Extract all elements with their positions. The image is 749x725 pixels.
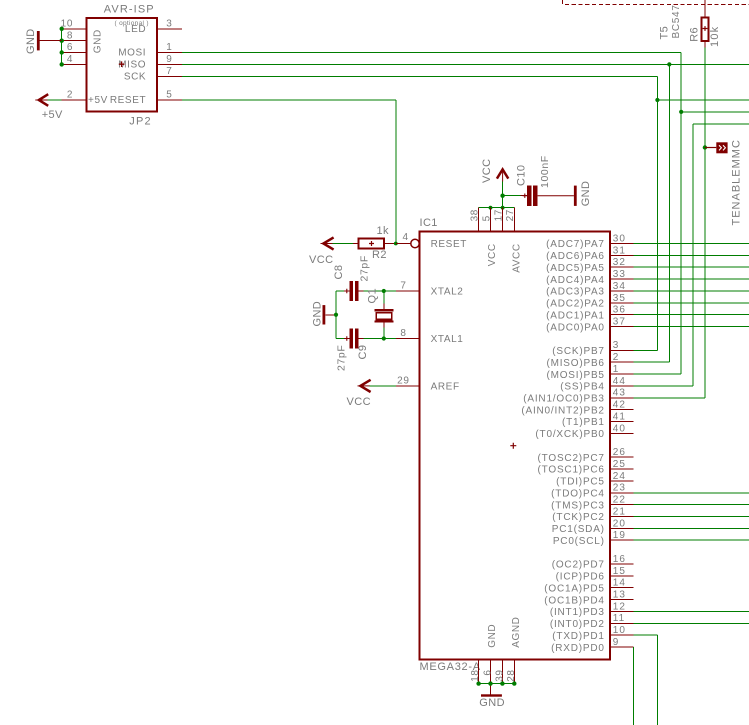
svg-text:VCC: VCC bbox=[309, 254, 333, 266]
wire from pin 11 bbox=[634, 622, 749, 624]
svg-text:33: 33 bbox=[613, 269, 626, 280]
svg-text:(TMS)PC3: (TMS)PC3 bbox=[551, 500, 605, 511]
C10 origin cross bbox=[523, 194, 527, 198]
svg-text:RESET: RESET bbox=[110, 95, 146, 106]
svg-text:18: 18 bbox=[470, 669, 481, 681]
svg-text:MOSI: MOSI bbox=[118, 48, 146, 59]
IC1 pin 19 stub bbox=[611, 539, 634, 541]
IC1 pin 36 stub bbox=[611, 314, 634, 316]
svg-text:14: 14 bbox=[613, 578, 626, 589]
svg-text:4: 4 bbox=[67, 54, 73, 65]
supply symbol VCC at R2 bbox=[321, 237, 334, 249]
svg-text:37: 37 bbox=[613, 317, 626, 328]
IC1 pin AREF stub bbox=[396, 385, 419, 387]
svg-text:+5V: +5V bbox=[88, 95, 108, 106]
svg-text:20: 20 bbox=[613, 518, 626, 529]
IC1 pin 25 stub bbox=[611, 468, 634, 470]
svg-text:(ADC7)PA7: (ADC7)PA7 bbox=[546, 239, 605, 250]
wire VCC to R2 bbox=[333, 243, 354, 245]
IC1 pin 22 stub bbox=[611, 504, 634, 506]
svg-text:9: 9 bbox=[166, 54, 172, 65]
IC1 top pin stub x=502.6 bbox=[502, 208, 504, 231]
IC1 pin 24 stub bbox=[611, 480, 634, 482]
svg-text:GND: GND bbox=[93, 29, 104, 53]
wire VCC to IC top pins bbox=[479, 207, 515, 209]
ground symbol at JP2 bbox=[37, 31, 62, 50]
svg-text:24: 24 bbox=[613, 471, 626, 482]
wire Q1 to XTAL1 bbox=[383, 327, 385, 339]
svg-text:Q1: Q1 bbox=[366, 288, 378, 303]
connector JP2 AVR-ISP box bbox=[86, 18, 157, 112]
IC1 pin 26 stub bbox=[611, 456, 634, 458]
svg-text:(TXD)PD1: (TXD)PD1 bbox=[552, 631, 605, 642]
wire from pin 1 bbox=[634, 373, 682, 375]
svg-text:SCK: SCK bbox=[124, 71, 146, 82]
svg-text:6: 6 bbox=[482, 669, 493, 675]
svg-text:8: 8 bbox=[400, 328, 406, 339]
svg-text:PC1(SDA): PC1(SDA) bbox=[552, 524, 605, 535]
svg-text:44: 44 bbox=[613, 376, 626, 387]
capacitor C10 bbox=[521, 186, 538, 206]
wire SCK net bbox=[182, 75, 657, 77]
IC1 top pin stub x=478.6 bbox=[478, 208, 480, 231]
junction TENABLEMMC bbox=[703, 145, 707, 149]
wire from pin 35 bbox=[634, 302, 749, 304]
wire C8 to XTAL2 bbox=[364, 290, 396, 292]
resistor R2 bbox=[353, 238, 396, 248]
svg-text:22: 22 bbox=[613, 495, 626, 506]
junction JP2 pin 4 bbox=[60, 62, 64, 66]
svg-text:(TOSC1)PC6: (TOSC1)PC6 bbox=[538, 465, 605, 476]
svg-text:(TOSC2)PC7: (TOSC2)PC7 bbox=[538, 453, 605, 464]
IC1 pin 16 stub bbox=[611, 563, 634, 565]
svg-text:12: 12 bbox=[613, 601, 626, 612]
wire from pin 3 bbox=[634, 349, 658, 351]
junction JP2 pin 6 bbox=[60, 50, 64, 54]
IC1 pin XTAL2 stub bbox=[396, 290, 419, 292]
svg-text:6: 6 bbox=[67, 42, 73, 53]
junction RESET at R2 bbox=[394, 242, 398, 246]
junction SCK branch bbox=[655, 98, 659, 102]
IC1 top pin stub x=490.5 bbox=[490, 208, 492, 231]
svg-text:JP2: JP2 bbox=[129, 116, 152, 128]
wire from pin 37 bbox=[634, 326, 749, 328]
svg-text:VCC: VCC bbox=[481, 159, 493, 183]
IC1 origin cross bbox=[510, 443, 516, 449]
svg-text:31: 31 bbox=[613, 245, 626, 256]
svg-text:(AIN0/INT2)PB2: (AIN0/INT2)PB2 bbox=[521, 405, 604, 416]
wire SS branch to edge bbox=[693, 123, 749, 125]
wire from pin 19 bbox=[634, 539, 749, 541]
svg-text:8: 8 bbox=[67, 30, 73, 41]
wire TXD vertical to bottom bbox=[656, 635, 658, 725]
IC1 pin 1 stub bbox=[611, 373, 634, 375]
svg-text:GND: GND bbox=[487, 624, 498, 648]
svg-text:(OC1A)PD5: (OC1A)PD5 bbox=[544, 583, 605, 594]
wire MISO vertical to PB6 bbox=[668, 64, 670, 362]
ground symbol at crystal bbox=[323, 305, 337, 324]
svg-text:5: 5 bbox=[166, 90, 172, 101]
wire SS vertical to PB4 bbox=[692, 124, 694, 386]
svg-text:(RXD)PD0: (RXD)PD0 bbox=[551, 643, 605, 654]
IC1 pin 44 stub bbox=[611, 385, 634, 387]
svg-text:(TDO)PC4: (TDO)PC4 bbox=[551, 489, 605, 500]
svg-text:XTAL1: XTAL1 bbox=[431, 334, 464, 345]
junction VCC node bbox=[500, 194, 504, 198]
junction crystal ground bbox=[334, 313, 338, 317]
IC1 pin 14 stub bbox=[611, 587, 634, 589]
supply symbol VCC at AREF bbox=[358, 380, 371, 392]
junction XTAL1 bbox=[382, 336, 386, 340]
svg-text:11: 11 bbox=[613, 613, 625, 624]
wire ground column bbox=[335, 291, 337, 339]
svg-text:3: 3 bbox=[613, 340, 620, 351]
svg-text:7: 7 bbox=[400, 281, 406, 292]
supply symbol +5V bbox=[35, 94, 48, 106]
ground symbol at C10 bbox=[574, 186, 577, 206]
wire +5V to JP2 pin 2 bbox=[48, 99, 62, 101]
svg-text:MISO: MISO bbox=[118, 60, 146, 71]
resistor R6 bbox=[702, 0, 709, 48]
JP2 pin 1 stub bbox=[157, 52, 182, 54]
svg-text:16: 16 bbox=[613, 554, 626, 565]
wire OC0 pullup vertical to PB3 bbox=[704, 47, 706, 398]
IC1 pin 11 stub bbox=[611, 622, 634, 624]
svg-text:GND: GND bbox=[311, 301, 323, 327]
svg-text:3: 3 bbox=[166, 19, 172, 30]
R2 origin cross bbox=[369, 241, 374, 246]
wire from pin 23 bbox=[634, 492, 749, 494]
svg-text:1: 1 bbox=[613, 364, 620, 375]
IC1 pin 35 stub bbox=[611, 302, 634, 304]
svg-text:21: 21 bbox=[613, 506, 626, 517]
wire from pin 34 bbox=[634, 290, 749, 292]
C8 origin cross bbox=[345, 289, 349, 293]
svg-text:AREF: AREF bbox=[431, 382, 460, 393]
IC1 pin XTAL1 stub bbox=[396, 338, 419, 340]
svg-text:5: 5 bbox=[481, 215, 492, 221]
svg-text:C9: C9 bbox=[357, 345, 369, 360]
junction bottom pin x=478.6 bbox=[476, 681, 480, 685]
ground symbol pin under IC1 bbox=[490, 684, 492, 695]
wire GND bus at JP2 bbox=[61, 29, 63, 65]
svg-text:27pF: 27pF bbox=[359, 255, 371, 281]
svg-text:17: 17 bbox=[493, 209, 504, 221]
svg-text:13: 13 bbox=[613, 590, 626, 601]
wire from pin 21 bbox=[634, 516, 749, 518]
JP2 pin 7 stub bbox=[157, 75, 182, 77]
wire to TENABLEMMC flag bbox=[705, 147, 716, 149]
svg-text:LED: LED bbox=[125, 24, 146, 35]
wire MISO net bbox=[182, 63, 749, 65]
IC1 pin 3 stub bbox=[611, 349, 634, 351]
wire C9 to XTAL1 bbox=[364, 338, 396, 340]
svg-text:(OC2)PD7: (OC2)PD7 bbox=[552, 560, 605, 571]
IC1 bottom pin stub x=514.3 bbox=[513, 660, 515, 683]
wire from pin 32 bbox=[634, 266, 749, 268]
R6 origin cross bbox=[703, 26, 708, 31]
svg-text:38: 38 bbox=[469, 209, 480, 221]
IC1 bottom pin stub x=502.4 bbox=[501, 660, 503, 683]
JP2 pin 2 stub bbox=[62, 99, 87, 101]
svg-text:25: 25 bbox=[613, 459, 626, 470]
svg-text:34: 34 bbox=[613, 281, 626, 292]
svg-text:(T1)PB1: (T1)PB1 bbox=[562, 417, 605, 428]
wire C9 left bbox=[336, 338, 344, 340]
IC1 pin 34 stub bbox=[611, 290, 634, 292]
IC1 pin 15 stub bbox=[611, 575, 634, 577]
wire from pin 2 bbox=[634, 361, 670, 363]
IC1 pin 42 stub bbox=[611, 409, 634, 411]
svg-text:(ADC0)PA0: (ADC0)PA0 bbox=[546, 322, 605, 333]
svg-text:2: 2 bbox=[67, 90, 73, 101]
wire XTAL2 to Q1 bbox=[383, 291, 385, 304]
flag symbol TENABLEMMC bbox=[716, 142, 727, 153]
junction top pin VCC bbox=[489, 206, 493, 210]
svg-text:(T0/XCK)PB0: (T0/XCK)PB0 bbox=[535, 429, 604, 440]
IC1 pin 13 stub bbox=[611, 599, 634, 601]
svg-text:GND: GND bbox=[25, 28, 37, 54]
svg-text:T5: T5 bbox=[658, 26, 670, 40]
capacitor C8 bbox=[344, 281, 364, 301]
C9 origin cross bbox=[345, 336, 349, 340]
IC1 pin 33 stub bbox=[611, 278, 634, 280]
svg-text:(ICP)PD6: (ICP)PD6 bbox=[556, 572, 605, 583]
wire MOSI vertical to PB5 bbox=[680, 53, 682, 375]
svg-text:28: 28 bbox=[506, 669, 517, 681]
wire from pin 12 bbox=[634, 611, 749, 613]
junction JP2 pin 10 bbox=[60, 27, 64, 31]
svg-text:35: 35 bbox=[613, 293, 626, 304]
svg-text:(MISO)PB6: (MISO)PB6 bbox=[546, 358, 604, 369]
wire MOSI net bbox=[182, 52, 681, 54]
svg-text:R6: R6 bbox=[689, 27, 701, 42]
svg-text:BC547: BC547 bbox=[671, 4, 682, 38]
IC1 pin 21 stub bbox=[611, 516, 634, 518]
svg-text:42: 42 bbox=[613, 400, 626, 411]
wire C8 left bbox=[336, 290, 344, 292]
svg-text:39: 39 bbox=[495, 669, 506, 681]
svg-text:IC1: IC1 bbox=[420, 217, 438, 229]
svg-text:(AIN1/OC0)PB3: (AIN1/OC0)PB3 bbox=[523, 394, 605, 405]
svg-text:43: 43 bbox=[613, 388, 626, 399]
svg-text:AVR-ISP: AVR-ISP bbox=[104, 4, 155, 16]
wire SCK vertical to PB7 bbox=[656, 76, 658, 350]
ground symbol under IC1 bbox=[481, 694, 502, 696]
svg-text:R2: R2 bbox=[372, 249, 387, 261]
IC1 bottom pin stub x=490.5 bbox=[490, 660, 492, 683]
wire from pin 10 bbox=[634, 634, 658, 636]
svg-text:PC0(SCL): PC0(SCL) bbox=[553, 536, 605, 547]
junction MISO bbox=[667, 62, 671, 66]
IC1 pin 40 stub bbox=[611, 432, 634, 434]
svg-text:19: 19 bbox=[613, 530, 626, 541]
svg-text:36: 36 bbox=[613, 305, 626, 316]
svg-text:23: 23 bbox=[613, 483, 626, 494]
svg-text:100nF: 100nF bbox=[539, 155, 551, 188]
IC1 pin 20 stub bbox=[611, 527, 634, 529]
svg-text:41: 41 bbox=[613, 411, 626, 422]
svg-text:VCC: VCC bbox=[347, 396, 371, 408]
svg-text:(OC1B)PD4: (OC1B)PD4 bbox=[544, 595, 605, 606]
svg-text:GND: GND bbox=[479, 697, 505, 709]
svg-text:(ADC3)PA3: (ADC3)PA3 bbox=[546, 287, 605, 298]
svg-text:(INT0)PD2: (INT0)PD2 bbox=[550, 619, 605, 630]
svg-text:29: 29 bbox=[397, 376, 409, 387]
svg-text:1: 1 bbox=[166, 42, 172, 53]
wire from pin 43 bbox=[634, 397, 705, 399]
IC1 pin 12 stub bbox=[611, 611, 634, 613]
svg-text:(ADC6)PA6: (ADC6)PA6 bbox=[546, 251, 605, 262]
svg-text:AVCC: AVCC bbox=[511, 243, 522, 272]
svg-text:C8: C8 bbox=[333, 265, 345, 280]
IC1 pin 23 stub bbox=[611, 492, 634, 494]
crystal Q1 bbox=[374, 304, 393, 328]
svg-text:(MOSI)PB5: (MOSI)PB5 bbox=[546, 370, 604, 381]
junction bottom pin x=514.3 bbox=[512, 681, 516, 685]
svg-text:RESET: RESET bbox=[431, 239, 467, 250]
wire from pin 44 bbox=[634, 385, 694, 387]
svg-text:1k: 1k bbox=[377, 225, 390, 237]
svg-text:(TCK)PC2: (TCK)PC2 bbox=[552, 512, 605, 523]
svg-text:32: 32 bbox=[613, 257, 626, 268]
wire RXD vertical to bottom bbox=[633, 647, 635, 725]
wire VCC to C10 node bbox=[503, 182, 521, 208]
svg-text:C10: C10 bbox=[515, 165, 527, 186]
wire from pin 33 bbox=[634, 278, 749, 280]
svg-text:(ADC1)PA1: (ADC1)PA1 bbox=[546, 310, 605, 321]
svg-text:(SS)PB4: (SS)PB4 bbox=[560, 382, 605, 393]
IC1 pin 2 stub bbox=[611, 361, 634, 363]
wire from pin 20 bbox=[634, 527, 749, 529]
svg-text:TENABLEMMC: TENABLEMMC bbox=[731, 139, 743, 225]
IC1 pin 31 stub bbox=[611, 254, 634, 256]
wire C10 to ground bbox=[538, 195, 574, 197]
IC1 pin 37 stub bbox=[611, 326, 634, 328]
svg-text:+5V: +5V bbox=[42, 109, 63, 121]
svg-text:27pF: 27pF bbox=[336, 345, 348, 371]
IC1 pin 32 stub bbox=[611, 266, 634, 268]
JP2 pin 4 stub bbox=[62, 63, 87, 65]
wire RESET net vertical bbox=[395, 100, 397, 244]
IC1 pin 43 stub bbox=[611, 397, 634, 399]
svg-text:(INT1)PD3: (INT1)PD3 bbox=[550, 607, 605, 618]
IC1 MEGA32-A body bbox=[420, 232, 610, 660]
JP2 pin 3 stub bbox=[157, 28, 182, 30]
svg-text:(SCK)PB7: (SCK)PB7 bbox=[552, 346, 605, 357]
svg-text:27: 27 bbox=[505, 209, 516, 221]
JP2 pin 10 stub bbox=[62, 28, 87, 30]
svg-text:10: 10 bbox=[61, 19, 73, 30]
junction MOSI branch bbox=[679, 110, 683, 114]
svg-text:9: 9 bbox=[613, 637, 620, 648]
svg-text:GND: GND bbox=[580, 181, 592, 207]
wire from pin 30 bbox=[634, 243, 749, 245]
wire from pin 22 bbox=[634, 504, 749, 506]
junction bottom pin x=502.4 bbox=[500, 681, 504, 685]
JP2 pin 8 stub bbox=[62, 40, 87, 42]
JP2 origin cross bbox=[119, 61, 125, 67]
svg-text:40: 40 bbox=[613, 423, 626, 434]
IC1 pin 30 stub bbox=[611, 243, 634, 245]
svg-text:(TDI)PC5: (TDI)PC5 bbox=[556, 477, 605, 488]
IC1 pin 41 stub bbox=[611, 421, 634, 423]
svg-text:7: 7 bbox=[166, 66, 172, 77]
junction top pin VCC 2 bbox=[501, 206, 505, 210]
wire from pin 36 bbox=[634, 314, 749, 316]
wire SCK branch to edge bbox=[657, 99, 749, 101]
capacitor C9 bbox=[344, 329, 364, 349]
svg-text:10k: 10k bbox=[709, 26, 721, 47]
IC1 top pin stub x=514.4 bbox=[513, 208, 515, 231]
wire MOSI branch to edge bbox=[681, 111, 749, 113]
svg-text:(ADC2)PA2: (ADC2)PA2 bbox=[546, 299, 605, 310]
dashed frame around transistor T5 bbox=[563, 0, 749, 5]
IC1 pin 10 stub bbox=[611, 634, 634, 636]
svg-text:2: 2 bbox=[613, 352, 620, 363]
wire RESET net horizontal bbox=[182, 99, 396, 101]
svg-text:(ADC4)PA4: (ADC4)PA4 bbox=[546, 275, 605, 286]
junction JP2 pin 8 bbox=[60, 39, 64, 43]
svg-text:15: 15 bbox=[613, 566, 626, 577]
JP2 pin 9 stub bbox=[157, 63, 182, 65]
IC1 pin 9 stub bbox=[611, 646, 634, 648]
svg-text:10: 10 bbox=[613, 625, 626, 636]
junction bottom pin x=490.5 bbox=[488, 681, 492, 685]
svg-text:VCC: VCC bbox=[487, 243, 498, 266]
JP2 pin 5 stub bbox=[157, 99, 182, 101]
svg-text:30: 30 bbox=[613, 233, 626, 244]
svg-text:(ADC5)PA5: (ADC5)PA5 bbox=[546, 263, 605, 274]
svg-text:AGND: AGND bbox=[511, 617, 522, 648]
svg-text:XTAL2: XTAL2 bbox=[431, 287, 464, 298]
IC1 bottom pin stub x=478.6 bbox=[478, 660, 480, 683]
wire VCC to AREF bbox=[370, 385, 396, 387]
JP2 pin 6 stub bbox=[62, 52, 87, 54]
IC1 RESET pin stub with bubble bbox=[396, 239, 419, 247]
junction XTAL2 bbox=[382, 289, 386, 293]
svg-text:26: 26 bbox=[613, 447, 626, 458]
wire from pin 31 bbox=[634, 254, 749, 256]
wire ground link under IC1 bbox=[479, 683, 515, 685]
supply symbol VCC (top) bbox=[497, 169, 508, 182]
svg-text:4: 4 bbox=[403, 232, 409, 243]
